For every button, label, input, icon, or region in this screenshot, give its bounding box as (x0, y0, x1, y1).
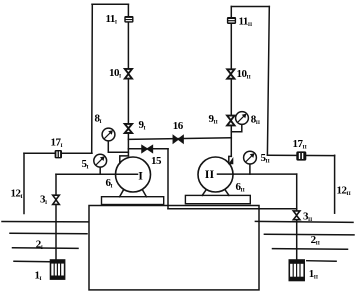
pump II casing (198, 157, 233, 192)
valve 9II (227, 116, 234, 126)
pressure gauge 5II (244, 151, 257, 164)
wire: series line with valve 15 horizontal (128, 148, 168, 150)
svg-text:5II: 5II (261, 152, 270, 165)
svg-text:9I: 9I (139, 119, 146, 132)
svg-text:16: 16 (173, 120, 184, 132)
wire: gauge 5II stem (249, 164, 251, 174)
flow indicator 11I (124, 16, 133, 23)
svg-text:1I: 1I (35, 269, 42, 282)
wire: left tank water line 4 (14, 260, 50, 262)
wire: pump I discharge main riser (127, 4, 129, 156)
valve 10II (227, 69, 234, 78)
svg-text:11I: 11I (106, 13, 118, 26)
wire: left tank water line 2 (10, 232, 87, 235)
pedestal of pump II (185, 195, 250, 203)
wire: top left header (92, 3, 128, 5)
svg-text:I: I (138, 169, 143, 183)
wire: cross-over line with valve 16 (128, 138, 231, 140)
wire: right tank water line 3 (273, 248, 348, 251)
svg-text:8II: 8II (251, 113, 260, 126)
pump II inner shaft line (218, 173, 234, 175)
svg-text:17II: 17II (293, 138, 307, 151)
svg-text:9II: 9II (209, 113, 218, 126)
pressure gauge 8I (102, 128, 115, 141)
svg-text:3I: 3I (40, 194, 47, 207)
orifice meter 17II (296, 151, 306, 160)
base foundation (89, 206, 259, 290)
foot strainer 1I (51, 260, 65, 279)
valve 15 (142, 146, 153, 153)
svg-text:6II: 6II (236, 181, 245, 194)
pump I discharge shoulder (120, 156, 129, 163)
valve 9I (125, 124, 132, 133)
wire: suction leg 3I (55, 174, 57, 260)
svg-text:II: II (205, 167, 215, 181)
svg-text:17I: 17I (51, 137, 63, 150)
foot strainer 1II (289, 260, 304, 281)
wire: drop leg 12I (23, 153, 25, 213)
wire: right return downcomer (267, 7, 269, 156)
wire: right tank water line 2 (264, 233, 354, 236)
wire: gauge 8I stem (108, 141, 128, 153)
svg-text:6I: 6I (106, 177, 113, 190)
pressure gauge 5I (94, 154, 107, 167)
wire: right tank water line 4 (307, 260, 336, 263)
svg-text:12II: 12II (337, 184, 351, 197)
svg-text:11II: 11II (239, 16, 253, 29)
wire: top right header (231, 6, 269, 8)
flow indicator 11II (227, 17, 236, 24)
wire: gauge 5I stem (99, 167, 101, 174)
svg-text:1II: 1II (309, 268, 318, 281)
pump II discharge shoulder (229, 156, 232, 163)
wire: left return downcomer (91, 4, 94, 153)
svg-text:10II: 10II (237, 68, 251, 81)
wire: pump II suction line (218, 173, 297, 175)
wire: left tank water line 1 (2, 221, 89, 223)
pump I casing (116, 157, 151, 192)
wire: pump I suction line (56, 173, 138, 175)
wire: series line bottom run to 3II (168, 208, 297, 210)
svg-text:5I: 5I (82, 158, 89, 171)
wire: right tank water line 1 (255, 221, 353, 222)
wire: orifice 17II run (267, 154, 334, 156)
wire: pump II discharge main riser (230, 7, 232, 157)
svg-text:8I: 8I (95, 113, 102, 126)
pump I inner shaft line (116, 173, 138, 175)
wire: orifice 17I run (24, 152, 92, 154)
pump II feet (202, 190, 206, 196)
svg-text:2I: 2I (36, 239, 43, 252)
wire: suction leg 3II (296, 174, 298, 260)
valve 3I (53, 195, 60, 204)
svg-text:3II: 3II (303, 210, 312, 223)
svg-text:12I: 12I (11, 187, 23, 200)
pressure gauge 8II (236, 112, 249, 125)
svg-text:10I: 10I (109, 67, 121, 80)
pedestal of pump I (102, 197, 164, 205)
valve 3II (293, 211, 300, 220)
wire: drop leg 12II (334, 155, 336, 213)
valve 10I (125, 69, 132, 79)
svg-text:2II: 2II (311, 234, 320, 247)
valve 16 (173, 136, 183, 143)
wire: left tank water line 3 (13, 247, 79, 250)
wire: gauge 8II stem (231, 124, 242, 132)
wire: series line vertical drop (167, 149, 169, 209)
svg-text:15: 15 (151, 155, 162, 167)
orifice meter 17I (55, 150, 62, 158)
pump I feet (120, 190, 124, 197)
